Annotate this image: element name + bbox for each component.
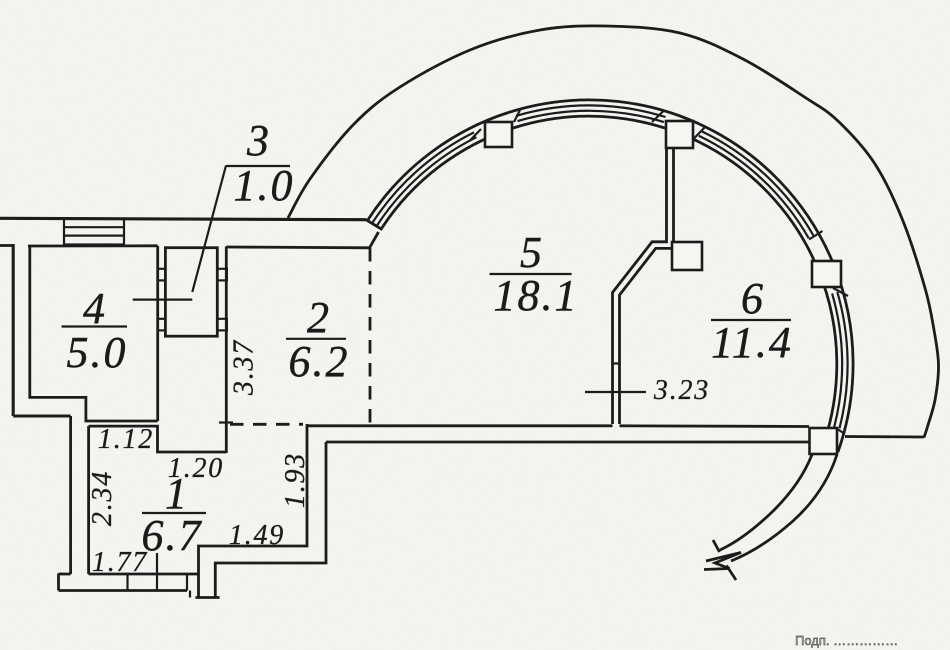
- window in top wall: [64, 219, 124, 245]
- svg-text:Подп. ……………: Подп. ……………: [795, 633, 898, 648]
- right end horizontal line: [845, 435, 924, 438]
- partition rooms5/6 left line: [613, 148, 667, 424]
- balcony tail outer curve: [731, 455, 837, 562]
- svg-text:1.77: 1.77: [92, 547, 148, 578]
- svg-text:1.93: 1.93: [280, 452, 311, 508]
- balcony mullion bevel: [809, 231, 823, 240]
- svg-text:2.34: 2.34: [87, 470, 118, 526]
- svg-text:3.23: 3.23: [653, 375, 710, 406]
- svg-text:2: 2: [307, 293, 331, 342]
- svg-text:11.4: 11.4: [711, 318, 793, 367]
- balcony mullion bevel: [470, 129, 482, 141]
- svg-text:6.7: 6.7: [142, 511, 203, 560]
- partition connector tick: [613, 362, 620, 364]
- column pier C (partition corner): [672, 242, 702, 270]
- dim tick 3.37 bottom: [219, 421, 233, 423]
- closet room 3 box: [165, 248, 217, 337]
- lower protrusion walls: [199, 424, 308, 598]
- svg-text:3: 3: [246, 116, 271, 165]
- top exterior wall outer line: [0, 218, 367, 219]
- top exterior wall inner line: [28, 244, 158, 247]
- column pier E: [810, 428, 838, 454]
- column pier A: [485, 122, 512, 147]
- svg-text:5.0: 5.0: [67, 328, 128, 377]
- outer balcony arc (building outline): [288, 26, 939, 438]
- balcony window glazing line: [837, 292, 847, 428]
- svg-text:1.49: 1.49: [229, 520, 285, 551]
- balcony window glazing line: [516, 105, 666, 117]
- balcony mullion bevel: [835, 428, 845, 435]
- partition rooms5/6 right line: [672, 148, 675, 242]
- balcony window glazing line: [832, 293, 842, 427]
- dim line 3.23: [585, 391, 646, 393]
- interior wall line room2 top: [226, 232, 378, 248]
- balcony outer band line: [368, 100, 853, 452]
- balcony window glazing line: [518, 111, 664, 122]
- room 2 left wall: [225, 247, 228, 454]
- bottom wall bottom line: [326, 441, 809, 444]
- balcony mullion bevel: [833, 288, 848, 296]
- balcony window glazing line: [377, 137, 477, 226]
- balcony mullion bevel: [514, 110, 520, 122]
- bottom wall top line: [306, 424, 613, 427]
- room 4 right wall: [156, 246, 159, 421]
- door jamb bumps: [158, 269, 166, 281]
- balcony window glazing line: [699, 136, 809, 238]
- column pier B: [666, 121, 693, 148]
- svg-text:18.1: 18.1: [494, 271, 579, 320]
- room 1 left wall: [69, 416, 72, 574]
- svg-text:5: 5: [520, 228, 544, 277]
- column pier D: [812, 261, 841, 287]
- dashed divider room2/room5 vertical: [369, 248, 372, 423]
- balcony window glazing line: [372, 132, 474, 223]
- svg-text:3.37: 3.37: [229, 339, 260, 396]
- room 4 interior outline: [30, 246, 158, 421]
- balcony inner band line: [367, 116, 837, 447]
- balcony tail inner curve: [720, 455, 812, 551]
- balcony mullion bevel: [652, 111, 664, 123]
- room 1 bottom wall: [89, 573, 199, 576]
- left exterior wall: [0, 244, 13, 247]
- break mark: [713, 540, 720, 552]
- room 1 top wall with step: [89, 426, 227, 452]
- svg-text:1.20: 1.20: [168, 453, 224, 484]
- balcony window glazing line: [701, 131, 813, 236]
- leader label 3: [192, 166, 226, 293]
- svg-text:1.12: 1.12: [98, 424, 154, 455]
- svg-text:1.0: 1.0: [234, 161, 295, 210]
- svg-text:6: 6: [741, 274, 765, 323]
- balcony mullion bevel: [693, 126, 706, 140]
- svg-text:6.2: 6.2: [289, 337, 350, 386]
- dashed divider horizontal: [230, 423, 303, 426]
- leader 6.7: [156, 553, 158, 590]
